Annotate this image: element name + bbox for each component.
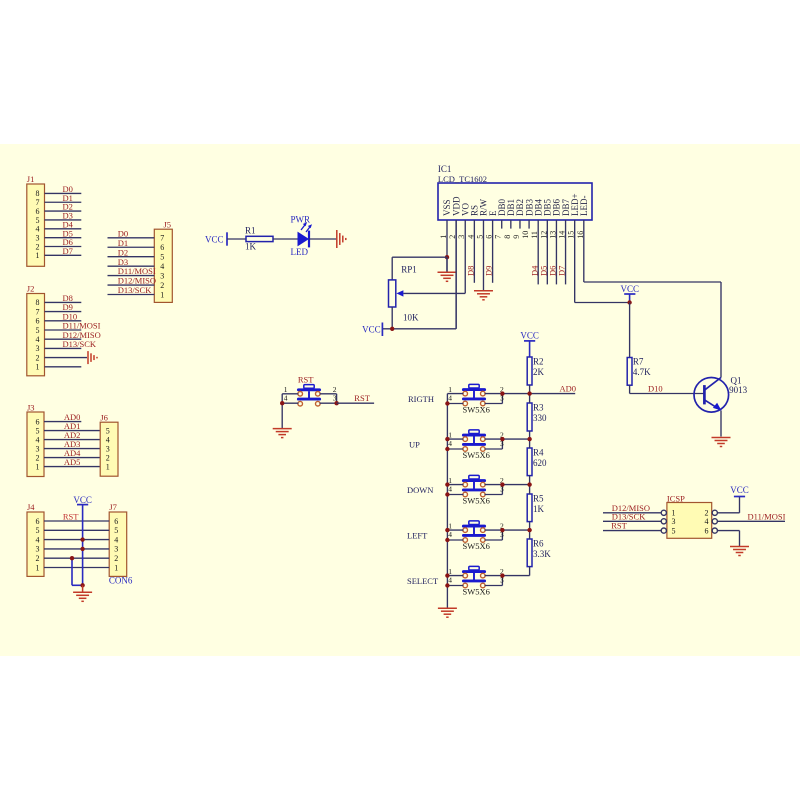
svg-text:R3: R3	[533, 402, 544, 412]
push button SW4 (DOWN) SW5X6	[463, 475, 485, 496]
svg-text:8: 8	[503, 235, 512, 239]
svg-text:1: 1	[106, 462, 110, 471]
resistor R5 1K	[527, 493, 544, 521]
svg-text:ICSP: ICSP	[667, 493, 685, 503]
svg-text:RST: RST	[63, 511, 79, 521]
push button RST SW5X6	[298, 385, 320, 406]
J4-J7 bus wires, RST net label	[44, 511, 109, 567]
ICSP header connector	[661, 493, 717, 538]
wire RP1 bottom to VCC and VDD	[382, 307, 456, 329]
row label SELECT	[407, 576, 439, 586]
svg-text:RST: RST	[611, 521, 627, 531]
svg-text:3: 3	[114, 545, 118, 554]
RST junction dots	[280, 401, 339, 405]
svg-text:D10: D10	[648, 384, 663, 394]
svg-text:5: 5	[114, 526, 118, 535]
svg-text:2: 2	[36, 554, 40, 563]
svg-text:VCC: VCC	[362, 324, 381, 334]
svg-text:RST: RST	[354, 393, 370, 403]
ICSP left wires with net labels D12/MISO D13/SCK RST	[603, 503, 661, 531]
wire LED- pin 16 to Q1 collector	[584, 282, 721, 378]
RIGTH button wires and pin numbers	[447, 385, 529, 414]
push button SW2 (RIGTH) SW5X6	[463, 384, 485, 405]
svg-text:3: 3	[36, 444, 40, 453]
potentiometer RP1 10K	[389, 264, 420, 322]
svg-text:5: 5	[36, 526, 40, 535]
svg-text:5: 5	[36, 326, 40, 335]
svg-text:9: 9	[512, 235, 521, 239]
SELECT button wires and pin numbers	[447, 567, 529, 596]
svg-text:6: 6	[36, 207, 40, 216]
connector J3	[27, 402, 44, 476]
RIGTH junction dots	[445, 391, 532, 405]
svg-text:620: 620	[533, 458, 547, 468]
svg-text:SW5X6: SW5X6	[463, 404, 490, 414]
VCC port above J4-J7	[73, 495, 92, 505]
ICSP pin 6 wire to ground	[717, 531, 739, 547]
svg-text:AD0: AD0	[560, 384, 577, 394]
svg-text:5: 5	[36, 426, 40, 435]
svg-text:5: 5	[672, 526, 676, 535]
resistor ladder rail wires	[529, 385, 531, 576]
wire LED to ground	[309, 238, 336, 240]
svg-text:4: 4	[106, 435, 110, 444]
VCC port at R1	[205, 232, 227, 245]
svg-text:3: 3	[106, 444, 110, 453]
wire VO pin 3 to RP1 wiper	[403, 292, 465, 294]
svg-text:6: 6	[160, 243, 164, 252]
ground on J2 pin 2 (sideways)	[88, 351, 97, 364]
row label LEFT	[407, 531, 428, 541]
connector J7 (CON6)	[109, 502, 133, 585]
svg-text:330: 330	[533, 413, 547, 423]
svg-text:4: 4	[448, 394, 452, 403]
VCC port above R7	[621, 284, 640, 303]
LED PWR indicator	[291, 215, 313, 258]
svg-text:VCC: VCC	[621, 284, 640, 294]
svg-text:3: 3	[333, 393, 337, 402]
svg-text:4: 4	[36, 225, 40, 234]
svg-text:LEFT: LEFT	[407, 531, 428, 541]
svg-text:VCC: VCC	[520, 330, 539, 340]
svg-text:R7: R7	[633, 357, 644, 367]
svg-text:3: 3	[36, 233, 40, 242]
ICSP pin 4 wire, net label D11/MOSI	[717, 512, 785, 522]
SELECT junction dots	[445, 573, 504, 587]
svg-text:RST: RST	[298, 374, 314, 384]
J1 pin wires with net labels D0-D7	[45, 184, 82, 256]
J3 pin wires with net labels AD0-AD5	[44, 412, 100, 467]
svg-text:4: 4	[284, 393, 288, 402]
svg-text:J6: J6	[100, 413, 108, 423]
transistor Q1 9013 (NPN)	[694, 376, 748, 413]
UP junction dots	[445, 437, 532, 451]
svg-text:3: 3	[160, 271, 164, 280]
connector J4	[27, 502, 44, 576]
VCC port at ICSP	[730, 485, 749, 497]
IC1 pin names (vertical)	[442, 193, 589, 216]
junction dot at VCC/R7 node	[627, 300, 631, 304]
svg-text:4.7K: 4.7K	[633, 367, 651, 377]
VCC port above R2	[520, 330, 539, 357]
connector J6	[100, 413, 118, 477]
svg-text:4: 4	[114, 535, 118, 544]
svg-text:2: 2	[36, 453, 40, 462]
svg-text:1K: 1K	[533, 504, 545, 514]
push button SW5 (LEFT) SW5X6	[463, 521, 485, 542]
row label UP	[409, 440, 420, 450]
svg-text:J1: J1	[27, 174, 35, 184]
svg-text:VCC: VCC	[73, 495, 92, 505]
resistor R1 1K	[245, 226, 273, 252]
svg-text:CON6: CON6	[109, 576, 133, 586]
junction dot at RP1 bottom	[390, 327, 394, 331]
branch wire from J4 row2 to ground rail	[70, 556, 85, 588]
svg-text:6: 6	[36, 317, 40, 326]
svg-text:7: 7	[36, 198, 40, 207]
left ground rail of buttons	[446, 394, 448, 609]
svg-text:LCD_TC1602: LCD_TC1602	[438, 174, 487, 184]
svg-text:VCC: VCC	[730, 485, 749, 495]
svg-text:8: 8	[36, 298, 40, 307]
svg-text:SW5X6: SW5X6	[463, 450, 490, 460]
ground below J4-J7	[73, 585, 92, 601]
svg-text:2: 2	[36, 242, 40, 251]
LEFT junction dots	[445, 528, 532, 542]
junction dot at VSS pin 1	[445, 255, 449, 259]
wire LED+ pin 15 to VCC node	[575, 302, 630, 304]
svg-text:6: 6	[36, 517, 40, 526]
svg-text:5: 5	[160, 253, 164, 262]
row label RIGTH	[408, 394, 434, 404]
svg-text:4: 4	[36, 535, 40, 544]
svg-text:1: 1	[160, 290, 164, 299]
svg-text:4: 4	[705, 517, 709, 526]
IC1 pin numbers 1-16 (vertical)	[439, 231, 585, 239]
svg-text:SW5X6: SW5X6	[463, 541, 490, 551]
svg-text:7: 7	[36, 307, 40, 316]
wire VDD pin 2 to VCC rail	[455, 220, 457, 329]
svg-text:R6: R6	[533, 538, 544, 548]
svg-text:J4: J4	[27, 502, 35, 512]
svg-text:5: 5	[106, 426, 110, 435]
svg-text:6: 6	[705, 526, 709, 535]
svg-text:PWR: PWR	[291, 215, 311, 225]
row label DOWN	[407, 485, 433, 495]
svg-text:SW5X6: SW5X6	[463, 586, 490, 596]
schematic sheet background	[0, 144, 800, 656]
VCC port at RP1 (sideways)	[362, 323, 382, 337]
resistor R7 4.7K	[627, 357, 651, 386]
svg-text:10K: 10K	[403, 313, 419, 323]
ground below button rail	[438, 608, 457, 617]
svg-text:R4: R4	[533, 447, 544, 457]
svg-text:4: 4	[160, 262, 164, 271]
svg-text:1: 1	[36, 563, 40, 572]
svg-text:D13/SCK: D13/SCK	[63, 339, 97, 349]
IC U1 LCD TC1602 box	[438, 164, 592, 220]
svg-text:LED: LED	[291, 247, 309, 257]
svg-text:R5: R5	[533, 493, 544, 503]
LEFT button wires and pin numbers	[447, 522, 529, 551]
svg-text:J5: J5	[164, 219, 172, 229]
svg-text:2: 2	[114, 554, 118, 563]
ground below VSS pin 1	[438, 257, 457, 281]
svg-text:LED-: LED-	[579, 196, 589, 217]
junction dots on VCC wire rows 4 and 3	[80, 537, 84, 551]
net labels D4-D7 on pins 11-14 (vertical)	[529, 265, 566, 276]
svg-text:2K: 2K	[533, 367, 545, 377]
DOWN junction dots	[445, 482, 532, 496]
resistor R6 3.3K	[527, 538, 551, 566]
ground right of LED (sideways)	[337, 230, 346, 248]
J5 pin wires with net labels	[108, 228, 157, 295]
svg-text:6: 6	[114, 517, 118, 526]
svg-text:1: 1	[36, 363, 40, 372]
J2 pin wires with net labels D8-D13/SCK	[45, 293, 101, 367]
ICSP pin 2 wire to VCC	[717, 497, 739, 513]
UP button wires and pin numbers	[447, 431, 529, 460]
net labels D8, D9 on pins 4 and 6 (vertical)	[465, 266, 493, 276]
net wire AD0 from ladder top	[530, 384, 576, 394]
ground below Q1	[712, 438, 731, 447]
ground below RST button	[273, 429, 292, 438]
RST net wire	[337, 393, 375, 403]
push button SW3 (UP) SW5X6	[463, 430, 485, 451]
svg-text:6: 6	[36, 417, 40, 426]
push button SW6 (SELECT) SW5X6	[463, 566, 485, 587]
svg-text:3.3K: 3.3K	[533, 549, 551, 559]
svg-text:AD5: AD5	[64, 457, 81, 467]
svg-text:IC1: IC1	[438, 164, 452, 174]
IC1 pin wires	[447, 220, 584, 329]
svg-text:4: 4	[36, 435, 40, 444]
resistor R4 620	[527, 447, 547, 475]
svg-text:D11/MOSI: D11/MOSI	[748, 512, 786, 522]
svg-text:SELECT: SELECT	[407, 576, 439, 586]
svg-text:J2: J2	[27, 284, 35, 294]
svg-text:D13/SCK: D13/SCK	[118, 285, 152, 295]
svg-text:RIGTH: RIGTH	[408, 394, 434, 404]
svg-text:1K: 1K	[245, 241, 257, 251]
connector J2	[27, 284, 45, 376]
svg-text:R1: R1	[245, 226, 256, 236]
svg-text:D8: D8	[465, 266, 475, 276]
svg-text:J3: J3	[27, 402, 35, 412]
svg-text:8: 8	[36, 189, 40, 198]
svg-text:D9: D9	[484, 266, 494, 276]
connector J1	[27, 174, 45, 266]
svg-text:1: 1	[36, 251, 40, 260]
RST button wires and pin numbers	[282, 385, 337, 428]
svg-text:7: 7	[494, 235, 503, 239]
RST button label	[298, 374, 314, 384]
ground below ICSP	[730, 547, 749, 556]
wire VSS to RP1 top	[392, 257, 447, 280]
wire R1 to LED	[273, 238, 298, 240]
svg-text:2: 2	[36, 353, 40, 362]
svg-text:DOWN: DOWN	[407, 485, 433, 495]
svg-text:D7: D7	[63, 246, 73, 256]
svg-text:3: 3	[36, 545, 40, 554]
ground below R/W pin 5	[474, 291, 493, 300]
svg-text:J7: J7	[109, 502, 117, 512]
wire Q1 emitter to ground	[720, 411, 722, 437]
svg-text:5: 5	[36, 216, 40, 225]
connector J5	[154, 219, 172, 302]
svg-text:D7: D7	[557, 266, 567, 276]
svg-text:7: 7	[160, 234, 164, 243]
svg-text:2: 2	[106, 453, 110, 462]
svg-text:RP1: RP1	[401, 264, 417, 274]
resistor R3 330	[527, 402, 547, 431]
svg-text:VCC: VCC	[205, 234, 224, 244]
DOWN button wires and pin numbers	[447, 476, 529, 505]
svg-text:SW5X6: SW5X6	[463, 495, 490, 505]
svg-text:UP: UP	[409, 440, 420, 450]
svg-text:10: 10	[521, 231, 530, 239]
svg-text:3: 3	[672, 517, 676, 526]
svg-text:3: 3	[36, 344, 40, 353]
VCC vertical wire into J4-J7 rows	[82, 505, 84, 586]
svg-text:1: 1	[114, 563, 118, 572]
wire R7 to Q1 base, net label D10	[630, 384, 705, 394]
svg-text:4: 4	[36, 335, 40, 344]
svg-text:9013: 9013	[729, 385, 748, 395]
wire VCC node down to R7	[629, 303, 631, 358]
wire VCC to R1	[227, 238, 246, 240]
resistor R2 2K	[527, 356, 544, 385]
svg-text:2: 2	[160, 281, 164, 290]
svg-text:R2: R2	[533, 356, 544, 366]
svg-text:1: 1	[36, 462, 40, 471]
